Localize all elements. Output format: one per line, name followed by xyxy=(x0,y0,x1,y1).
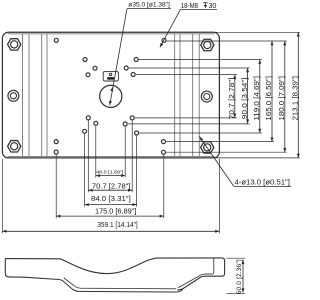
svg-text:90.0 [3.54"]: 90.0 [3.54"] xyxy=(242,77,249,119)
svg-text:119.0 [4.69"]: 119.0 [4.69"] xyxy=(254,76,261,121)
svg-text:60.0 [2.36"]: 60.0 [2.36"] xyxy=(236,259,243,294)
svg-text:ø35.0 [ø1.38"]: ø35.0 [ø1.38"] xyxy=(128,2,170,9)
svg-text:18-M8: 18-M8 xyxy=(181,1,198,10)
svg-text:70.7 [2.78"]: 70.7 [2.78"] xyxy=(92,183,131,190)
svg-text:213.1 [8.39"]: 213.1 [8.39"] xyxy=(293,76,300,121)
svg-text:84.0 [3.31"]: 84.0 [3.31"] xyxy=(91,196,131,203)
svg-text:165.0 [6.50"]: 165.0 [6.50"] xyxy=(266,76,273,121)
svg-text:4-ø13.0 [ø0.51"]: 4-ø13.0 [ø0.51"] xyxy=(235,178,290,187)
svg-text:48.0 [1.89"]: 48.0 [1.89"] xyxy=(96,169,123,174)
svg-text:359.1 [14.14"]: 359.1 [14.14"] xyxy=(97,222,138,229)
svg-text:180.0 [7.09"]: 180.0 [7.09"] xyxy=(279,76,286,121)
svg-text:70.7 [2.78"]: 70.7 [2.78"] xyxy=(229,77,236,119)
svg-text:175.0 [6.89"]: 175.0 [6.89"] xyxy=(95,209,136,216)
svg-text:30: 30 xyxy=(208,1,216,10)
